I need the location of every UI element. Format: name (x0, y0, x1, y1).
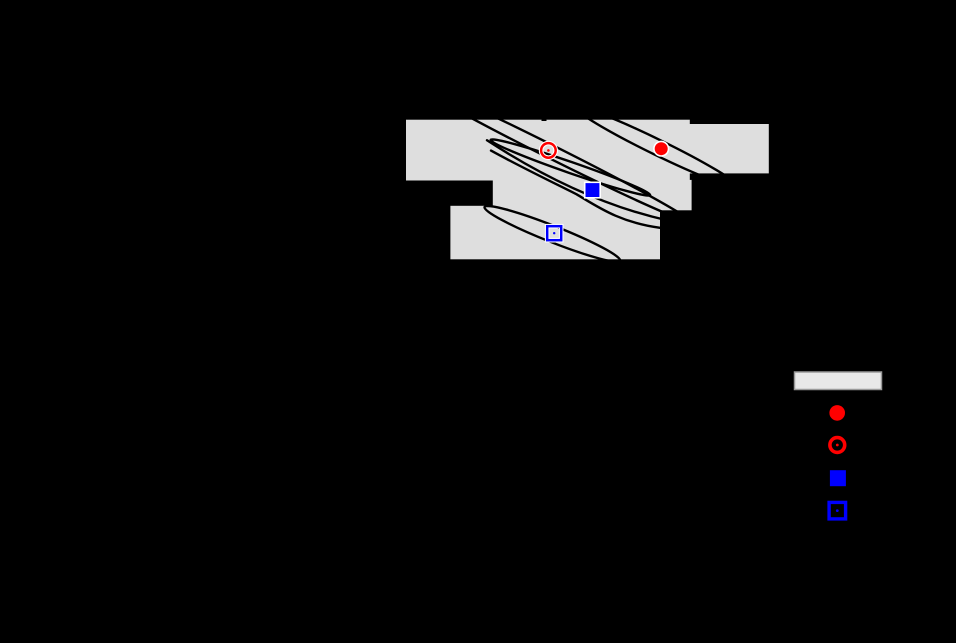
grey label region R3 (493, 180, 692, 210)
grey label region R2 (689, 124, 769, 173)
marker red filled circle (654, 141, 669, 156)
ellipse E1 pooled thin (489, 135, 652, 201)
legend marker blue open square (829, 502, 846, 519)
grey label region R1 (406, 120, 690, 181)
legend box (795, 372, 882, 390)
marker blue filled square (585, 182, 601, 198)
grey label region R4 (450, 206, 660, 259)
legend marker red open circle (830, 438, 845, 453)
black sliver on R1 top edge (542, 119, 547, 121)
marker red open circle (541, 143, 556, 158)
legend marker blue filled square (830, 470, 846, 486)
ellipse EB1 blue-filled group upper edge (487, 140, 668, 220)
ellipse EL1 red-open group (406, 75, 694, 228)
marker blue open square (547, 226, 561, 240)
ellipse EB2 blue-open group (482, 199, 624, 268)
ellipse ER red-filled group (573, 101, 742, 194)
legend marker red filled circle (829, 405, 845, 421)
ellipse EB1 blue-filled group lower edge (491, 151, 660, 228)
